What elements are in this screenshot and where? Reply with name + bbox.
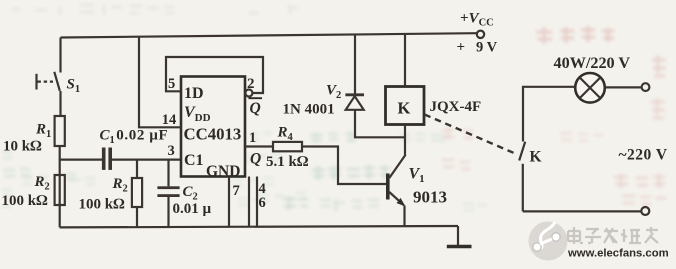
wire below R1 (59, 146, 61, 227)
svg-text:CC4013: CC4013 (184, 125, 242, 144)
switch S1 (54, 72, 60, 91)
relay K coil (404, 34, 406, 86)
svg-text:3: 3 (168, 143, 175, 159)
svg-text:5.1 kΩ: 5.1 kΩ (266, 154, 309, 170)
svg-text:100 kΩ: 100 kΩ (79, 197, 126, 213)
svg-text:100 kΩ: 100 kΩ (2, 193, 49, 209)
svg-text:K: K (530, 149, 542, 166)
node: junction to C1 (60, 159, 102, 161)
svg-text:9 V: 9 V (476, 40, 498, 56)
svg-text:14: 14 (162, 112, 177, 128)
svg-text:40W/220 V: 40W/220 V (554, 54, 631, 72)
svg-text:Q: Q (250, 151, 261, 168)
dashed link relay to contact (425, 115, 514, 153)
pin 5 wire + feedback loop (166, 57, 263, 93)
svg-text:JQX-4F: JQX-4F (430, 99, 482, 115)
resistor R2 middle (136, 160, 138, 178)
watermark logo circle (529, 222, 568, 261)
svg-text:6: 6 (259, 195, 266, 211)
svg-text:10 kΩ: 10 kΩ (3, 139, 42, 155)
pin 4 wire (248, 177, 250, 227)
bottom rail wire (60, 226, 458, 227)
svg-text:7: 7 (233, 183, 240, 199)
terminal top right (642, 83, 650, 91)
svg-text:2: 2 (247, 76, 255, 92)
wire C1 to pin3 (112, 159, 181, 161)
top rail wire (61, 33, 477, 37)
wire left column upper (59, 38, 61, 73)
resistor R4 (273, 142, 302, 151)
svg-text:1D: 1D (184, 85, 204, 102)
svg-text:+: + (457, 40, 466, 56)
svg-text:GND: GND (206, 163, 240, 180)
wire R4 to base (302, 147, 386, 185)
capacitor C2 (167, 160, 169, 187)
svg-text:5: 5 (168, 76, 175, 92)
pin 2 bubble (245, 90, 252, 97)
diode V2 1N4001 (354, 34, 356, 94)
svg-text:Q: Q (250, 100, 261, 117)
pin 6 wire (256, 177, 258, 227)
pin 7 wire (228, 177, 230, 227)
wire below switch (59, 91, 61, 116)
lamp branch (523, 87, 575, 142)
svg-text:1: 1 (249, 130, 256, 146)
resistor R2 left (55, 175, 65, 205)
svg-text:www.elecfans.com: www.elecfans.com (567, 248, 669, 260)
svg-text:0.01 µ: 0.01 µ (173, 201, 212, 217)
resistor R1 (55, 116, 65, 146)
pin 1 wire to R4 (245, 145, 273, 147)
watermark CJK text blocks (568, 227, 658, 244)
svg-text:K: K (398, 99, 411, 118)
svg-text:C1: C1 (184, 152, 204, 169)
IC U1 CC4013 box (181, 77, 245, 177)
capacitor C1 (102, 148, 106, 170)
bottom wire to terminal (523, 210, 641, 212)
pin 14 wire from rail (139, 37, 181, 128)
+Vcc terminal (477, 31, 484, 38)
transistor V1 9013 (386, 174, 390, 200)
svg-text:~220 V: ~220 V (619, 147, 668, 164)
ghost bleed-through marks (2, 5, 666, 211)
terminal bottom right (641, 207, 649, 215)
ground (457, 226, 459, 245)
svg-text:9013: 9013 (413, 188, 447, 207)
relay contact K (519, 142, 525, 161)
lamp 40W/220V (575, 73, 605, 103)
svg-text:1N 4001: 1N 4001 (283, 102, 335, 118)
